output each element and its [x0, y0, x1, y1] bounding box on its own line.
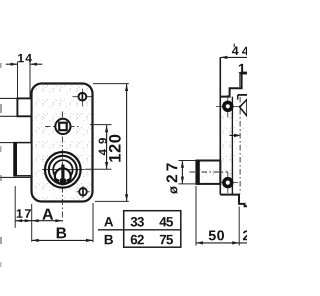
- cylinder inner circle: [53, 160, 72, 179]
- side screw bottom crosshair: [217, 182, 238, 184]
- dimension B label: [57, 228, 66, 239]
- dimension 14 label: [18, 54, 32, 62]
- projection line bolt top: [0, 142, 14, 144]
- extension line spindle center: [90, 124, 112, 126]
- keyhole plug: [55, 168, 71, 184]
- extension line body top: [93, 83, 129, 85]
- extension line body bottom: [95, 200, 129, 202]
- dimension 120 label: [109, 135, 121, 162]
- stray scan tick: [234, 44, 235, 47]
- dimension 50 extension lines: [195, 186, 197, 246]
- spindle hole circle: [55, 119, 70, 134]
- table value 45: [159, 217, 173, 226]
- table divider line: [98, 229, 181, 231]
- dimension 14 extension lines: [17, 62, 19, 99]
- side view bottom step profile: [220, 195, 247, 207]
- dimension 44 line: [220, 56, 247, 58]
- dimension 2x label (clipped): [243, 231, 250, 241]
- bolt: [14, 143, 32, 176]
- cylinder housing (side view): [196, 161, 220, 184]
- bottom extension lines: [14, 186, 16, 228]
- dimension A label: [42, 209, 53, 220]
- cylinder outer circle: [45, 152, 81, 188]
- side screw top: [224, 102, 232, 110]
- table row label B: [105, 235, 113, 244]
- bolt face (dark): [14, 142, 17, 176]
- spindle square: [59, 123, 66, 131]
- cylinder axis line: [190, 171, 229, 173]
- projection line bolt bottom: [0, 176, 32, 178]
- lock body (front view): [32, 84, 93, 202]
- table value 62: [131, 235, 144, 245]
- table row label A: [104, 217, 113, 226]
- cylinder middle circle: [49, 156, 77, 184]
- scan edge smudges: [0, 63, 2, 68]
- side view top step profile: [220, 73, 247, 97]
- dimension o27 line: [181, 161, 183, 184]
- cylinder crosshair: [42, 169, 85, 171]
- spindle axis arrow (side view): [230, 134, 237, 136]
- cylinder housing face (dark): [196, 160, 200, 184]
- side view faceplate back edge: [231, 97, 233, 195]
- side view faceplate fill: [220, 97, 232, 195]
- dimension B line: [32, 239, 93, 241]
- dimension 50 line: [196, 242, 247, 244]
- table value 75: [160, 235, 173, 244]
- top screw: [79, 93, 87, 101]
- side screw top crosshair: [216, 106, 242, 108]
- dimension 120 line: [126, 84, 128, 201]
- side screw bottom: [224, 179, 232, 187]
- bottom screw: [79, 188, 87, 196]
- dimension o27 extension lines: [179, 160, 197, 162]
- dimension 15 line: [240, 73, 247, 75]
- projection line latch bottom: [0, 115, 17, 117]
- table value 33: [131, 217, 144, 227]
- dimension 27 label: [166, 163, 177, 182]
- dimension 17 + A line: [15, 220, 62, 222]
- bottom screw crosshair: [77, 191, 91, 193]
- top screw crosshair: [73, 96, 92, 98]
- dimension 15 extension: [239, 74, 241, 87]
- dimension 50 label: [209, 230, 224, 240]
- diameter symbol: [170, 186, 178, 194]
- dimension 44 label: [232, 47, 239, 56]
- case interior texture: [233, 118, 247, 158]
- table box: [124, 211, 181, 248]
- vertical centerline: [61, 112, 63, 224]
- latch box: [17, 98, 31, 116]
- dimension 17 label: [17, 209, 31, 218]
- extension line cylinder center: [85, 168, 112, 170]
- side view case front above latch: [237, 95, 239, 100]
- side view front edge: [219, 57, 221, 194]
- dimension 49 line: [106, 125, 108, 169]
- dimension 15 label: [239, 64, 246, 74]
- dimension 14 line: [6, 63, 18, 65]
- latch bolt (side view): [240, 99, 247, 116]
- side view centerline (dash-dot): [239, 97, 241, 194]
- projection line latch top: [0, 97, 17, 99]
- dimension 49 label: [99, 138, 107, 155]
- spindle crosshair: [45, 125, 81, 127]
